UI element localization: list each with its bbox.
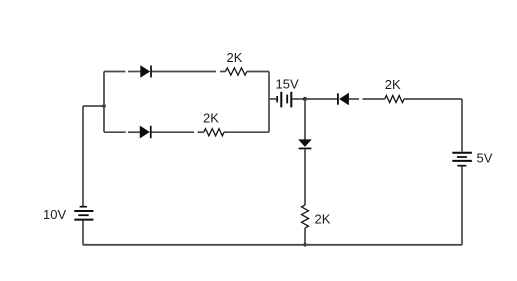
wire right vertical of bridge: [268, 72, 270, 133]
svg-text:10V: 10V: [43, 207, 66, 222]
wire left vertical of bridge: [103, 72, 105, 133]
wire D3 to dash: [349, 98, 359, 100]
svg-text:2K: 2K: [385, 77, 401, 92]
diode D2 (bottom branch, anode left): [140, 126, 152, 139]
wire dash to resistor R3: [363, 98, 385, 100]
node C (bottom junction): [303, 243, 307, 247]
node A (stub junction): [102, 104, 106, 108]
wire top branch left: [104, 71, 126, 73]
wire top branch diode to resistor: [152, 71, 217, 73]
wire bottom branch to diode: [128, 131, 140, 133]
wire right rail lower: [461, 166, 463, 245]
battery V2 15V plates: [277, 92, 291, 108]
svg-text:15V: 15V: [276, 77, 299, 92]
wire R3 to right rail: [404, 98, 462, 100]
wire node to diode D3: [305, 98, 337, 100]
resistor R1 2K (top branch): [226, 68, 247, 75]
wire node down to diode D4: [304, 99, 306, 140]
wire dash before bottom resistor: [198, 131, 204, 133]
svg-text:2K: 2K: [203, 111, 219, 126]
wire left rail lower: [82, 221, 84, 246]
wire bottom rail: [83, 244, 462, 246]
wire bottom branch resistor to corner: [224, 131, 269, 133]
wire R4 to bottom rail: [304, 228, 306, 245]
svg-text:2K: 2K: [227, 50, 243, 65]
wire dash before top resistor: [220, 71, 226, 73]
wire bottom branch left: [104, 131, 126, 133]
wire top branch to diode: [128, 71, 141, 73]
battery V2 15V leads: [269, 98, 276, 100]
diode D1 (top branch, anode left): [140, 65, 152, 77]
wire left rail upper: [82, 106, 84, 206]
wire bottom diode to dash: [152, 131, 195, 133]
svg-text:5V: 5V: [477, 151, 493, 166]
wire D4 to resistor R4: [304, 149, 306, 205]
diode D4 (points down): [298, 139, 312, 149]
battery V3 5V plates: [452, 153, 472, 166]
wire right rail upper: [461, 99, 463, 152]
resistor R4 2K (vertical): [302, 205, 309, 228]
battery V1 10V plates: [74, 207, 93, 220]
diode D3 (points left, cathode bar left): [337, 93, 349, 106]
resistor R3 2K (right horizontal): [385, 96, 404, 103]
svg-text:2K: 2K: [315, 212, 331, 227]
wire top branch resistor to corner: [247, 71, 269, 73]
resistor R2 2K (bottom branch): [204, 129, 224, 136]
wire stub from left rail to diode bridge: [83, 105, 104, 107]
node B (junction at 305,99): [303, 97, 307, 101]
